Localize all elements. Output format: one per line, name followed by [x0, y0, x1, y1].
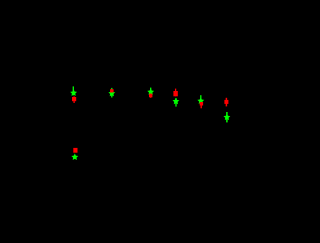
green error bar A: [72, 86, 74, 95]
red square F: [224, 100, 228, 104]
red square A: [72, 97, 76, 101]
green star A: [70, 89, 77, 96]
green error bar D: [175, 98, 177, 107]
red square G: [73, 148, 77, 153]
green error bar E: [200, 95, 202, 103]
red error bar C: [150, 94, 152, 98]
red square C: [149, 94, 152, 98]
red error bar A: [73, 96, 75, 103]
red error bar F: [225, 98, 227, 107]
red error bar E: [200, 102, 202, 108]
green star F: [223, 114, 230, 121]
red square B: [110, 89, 114, 92]
green star B: [108, 90, 115, 97]
green star E: [197, 97, 204, 104]
green error bar C: [150, 88, 152, 95]
green star D: [172, 98, 179, 105]
red square D: [173, 91, 177, 96]
green star G: [71, 154, 78, 161]
green error bar B: [111, 88, 113, 98]
green error bar F: [226, 112, 228, 122]
green star C: [147, 88, 154, 95]
red error bar D: [175, 89, 177, 97]
red square E: [200, 102, 203, 105]
